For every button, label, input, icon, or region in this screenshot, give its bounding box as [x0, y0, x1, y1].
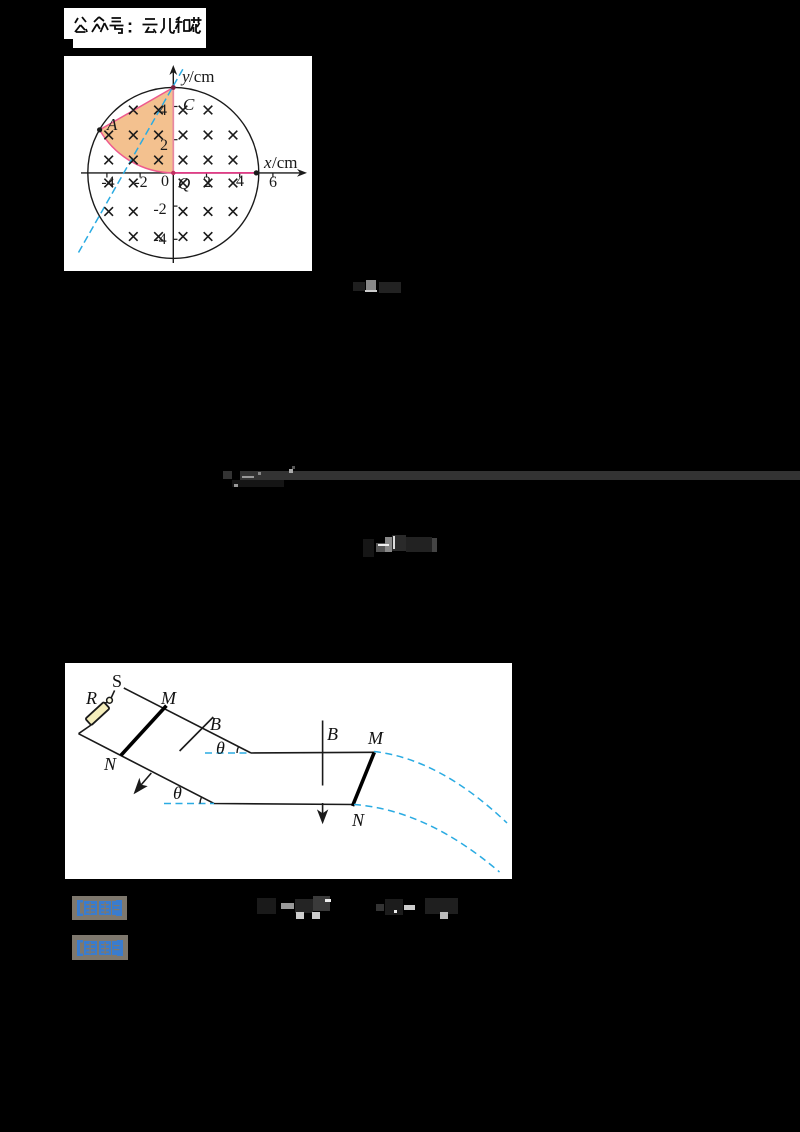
svg-text:M: M [367, 728, 384, 748]
svg-text:θ: θ [173, 783, 182, 803]
svg-text:S: S [112, 671, 122, 691]
svg-text:4: 4 [236, 173, 244, 190]
svg-text:A: A [106, 115, 118, 134]
svg-text:-4: -4 [101, 174, 114, 191]
svg-text:θ: θ [216, 738, 225, 758]
svg-text:C: C [183, 95, 195, 114]
svg-text:-4: -4 [153, 231, 166, 248]
svg-text:Q: Q [178, 174, 190, 193]
svg-text:/cm: /cm [272, 153, 298, 172]
svg-text:2: 2 [203, 174, 211, 191]
svg-text:6: 6 [269, 174, 277, 191]
svg-text:N: N [351, 810, 365, 830]
svg-text:-2: -2 [134, 174, 147, 191]
svg-text:B: B [327, 724, 338, 744]
svg-text:N: N [103, 754, 117, 774]
svg-text:B: B [210, 714, 221, 734]
svg-text:M: M [160, 688, 177, 708]
svg-text:-2: -2 [153, 201, 166, 218]
svg-text:x: x [263, 153, 272, 172]
svg-text:0: 0 [161, 173, 169, 190]
svg-text:2: 2 [160, 137, 168, 154]
svg-text:/cm: /cm [189, 67, 215, 86]
svg-text:4: 4 [159, 102, 167, 119]
svg-text:R: R [85, 688, 97, 708]
